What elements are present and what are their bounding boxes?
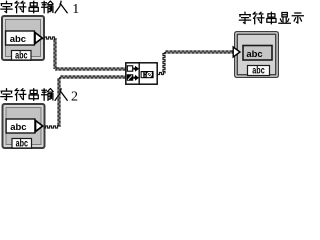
node label 字符串输入1 bbox=[1, 1, 79, 17]
svg-text:abc: abc bbox=[15, 49, 28, 60]
string control terminal 字符串输入1 bbox=[2, 16, 44, 61]
string indicator terminal 字符串显示 bbox=[233, 32, 278, 78]
node label 字符串输入2 bbox=[1, 89, 78, 105]
concatenate strings function node bbox=[126, 62, 157, 85]
wire from node output to 字符串显示 bbox=[158, 51, 234, 75]
node label 字符串显示 bbox=[239, 12, 303, 24]
wire from 字符串输入1 to node input 1 bbox=[43, 37, 126, 70]
svg-text:abc: abc bbox=[252, 64, 265, 75]
svg-text:abc: abc bbox=[10, 34, 26, 45]
svg-text:abc: abc bbox=[246, 49, 262, 60]
svg-text:abc: abc bbox=[16, 137, 29, 148]
string control terminal 字符串输入2 bbox=[3, 104, 45, 149]
wire from 字符串输入2 to node input 2 bbox=[44, 76, 126, 128]
svg-text:abc: abc bbox=[10, 122, 26, 133]
svg-text:2: 2 bbox=[71, 90, 78, 105]
svg-text:1: 1 bbox=[72, 2, 79, 17]
